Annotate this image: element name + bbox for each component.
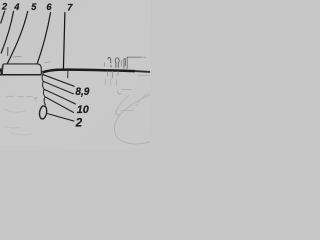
leader line from label 4 xyxy=(1,11,14,54)
leader line from label 5 (curved) xyxy=(2,11,27,73)
bracket horizontal line to right edge xyxy=(127,56,141,58)
leader line from label 2 xyxy=(1,11,5,24)
faint echo line under band right xyxy=(138,74,150,76)
hook H3 on band xyxy=(124,59,125,69)
scanned paper background xyxy=(0,0,150,150)
faint arc lower left xyxy=(4,109,26,112)
faint dash above band near block xyxy=(45,62,52,63)
faint T mark left of loop xyxy=(34,98,39,102)
faint under-band stems xyxy=(107,71,109,76)
faint arc bottom left xyxy=(10,133,34,136)
faint horizontal dash above block xyxy=(13,55,22,58)
faint upper-left arc of oval xyxy=(116,96,130,115)
end loop of rolled strip xyxy=(39,105,48,119)
fold layer line F2 xyxy=(43,81,74,94)
faint dashed guide line below block xyxy=(7,95,33,98)
svg-text:4: 4 xyxy=(13,2,19,12)
svg-text:6: 6 xyxy=(46,2,52,12)
fold layer line F1 to label 8,9 xyxy=(43,75,75,87)
svg-text:8,9: 8,9 xyxy=(75,86,90,98)
hook H1 on band xyxy=(108,57,111,63)
leader line from label 7 (near vertical) xyxy=(63,12,65,69)
faint scribble mid right xyxy=(116,110,134,116)
loop H2 on band xyxy=(115,58,119,68)
very faint marks below band xyxy=(104,79,106,85)
dark convergence blob at block lower-left xyxy=(1,69,2,75)
faint stem between hooks xyxy=(120,60,122,66)
block body slightly lighter interior xyxy=(2,64,41,75)
svg-text:2: 2 xyxy=(75,117,83,129)
fold layer line F4 xyxy=(45,97,74,113)
fold layer line F5 from loop to label 2 xyxy=(47,113,75,121)
tick below band left xyxy=(67,71,69,78)
svg-text:7: 7 xyxy=(67,3,73,13)
small vertical tick above block xyxy=(7,47,9,56)
fold layer line F3 to label 10 xyxy=(44,89,76,104)
svg-text:10: 10 xyxy=(77,104,90,116)
faint scribble upper right of labels xyxy=(118,89,132,94)
block bottom edge (substrate line to image edge) xyxy=(0,74,42,76)
faint small stem left of hooks xyxy=(103,63,105,67)
svg-text:5: 5 xyxy=(31,2,37,12)
svg-text:2: 2 xyxy=(1,1,8,11)
faint dashes lower left xyxy=(4,126,20,128)
bracket vertical at right of hooks xyxy=(126,57,128,69)
faint upper arc right xyxy=(136,93,150,107)
block left edge xyxy=(2,64,3,75)
scalloped fold edge below block xyxy=(42,73,46,106)
block (clamp body) top edge with rounded right corner xyxy=(3,64,41,75)
faint large arc bottom right xyxy=(114,95,150,144)
leader line from label 6 xyxy=(37,12,51,64)
tape band (element 7) long horizontal dark line xyxy=(42,70,135,73)
